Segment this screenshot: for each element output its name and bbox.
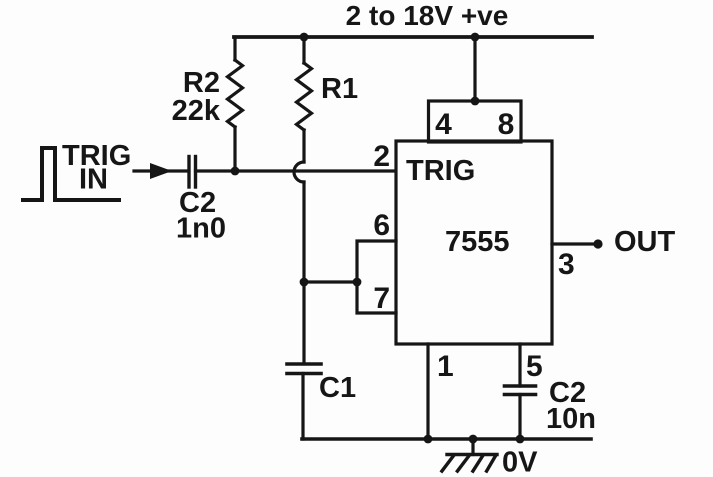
input pulse waveform symbol xyxy=(23,148,119,200)
svg-text:1n0: 1n0 xyxy=(176,213,226,245)
wire: trigger line from C2 to pin 2 of IC xyxy=(196,169,397,172)
svg-text:0V: 0V xyxy=(502,447,538,477)
resistor R1 (zigzag) xyxy=(297,63,312,130)
wire: vertical from branch down to C1 top plate xyxy=(302,282,305,363)
wire: vertical from +V rail down to 4/8 box xyxy=(473,37,476,101)
svg-text:TRIG: TRIG xyxy=(406,155,475,187)
wire: 0V bottom rail xyxy=(302,437,591,441)
wire: vertical from hop down to pins 6/7 branch xyxy=(302,182,305,282)
ground: hatch stroke 1 xyxy=(442,456,454,472)
ground: hatch stroke 4 xyxy=(487,456,496,472)
wire: stub from 0V rail to ground symbol xyxy=(471,439,474,455)
svg-text:7555: 7555 xyxy=(445,226,510,258)
svg-text:7: 7 xyxy=(373,282,390,315)
capacitor C2 10n, top plate xyxy=(505,384,536,388)
svg-text:OUT: OUT xyxy=(614,226,676,258)
svg-text:8: 8 xyxy=(498,108,515,141)
wire: R2 bottom lead down to trigger line xyxy=(233,127,236,171)
node: junction dot on bracket left side xyxy=(353,278,362,287)
op-amp U1: 7555 timer IC body xyxy=(396,141,552,344)
wire: bracket joining pins 6 and 7 xyxy=(357,241,396,313)
svg-text:5: 5 xyxy=(526,350,543,383)
svg-text:C1: C1 xyxy=(319,372,356,404)
node: output terminal dot xyxy=(593,239,602,248)
resistor R2 (zigzag) xyxy=(228,60,243,127)
svg-text:1: 1 xyxy=(437,350,454,383)
node: junction dot ground stub on 0V rail xyxy=(469,435,478,444)
capacitor C2 input coupling, right plate xyxy=(194,157,197,188)
svg-text:3: 3 xyxy=(558,248,575,281)
svg-text:4: 4 xyxy=(435,108,452,141)
wire: pin 3 output lead xyxy=(552,242,598,245)
wire: R1 bottom lead down to hop xyxy=(302,130,305,162)
capacitor C2 input coupling, left plate xyxy=(187,157,190,188)
wire: C2 bottom lead to 0V rail xyxy=(518,395,521,440)
wire: +V top supply rail xyxy=(234,35,592,39)
ground: hatch stroke 3 xyxy=(473,456,483,472)
arrow: signal flow arrowhead xyxy=(150,163,172,179)
capacitor C1 timing, bottom plate xyxy=(287,372,321,376)
svg-text:2 to 18V +ve: 2 to 18V +ve xyxy=(346,0,509,31)
ground: chassis ground symbol bar xyxy=(447,453,497,456)
wire: pin 1 lead from IC bottom to 0V rail xyxy=(426,344,429,439)
svg-text:10n: 10n xyxy=(546,403,596,435)
box: pins 4 and 8 supply box xyxy=(429,101,522,142)
wire: R1 top lead from +V rail xyxy=(302,37,305,63)
svg-text:R1: R1 xyxy=(321,73,358,105)
node: junction dot pin4/8 feed on +V rail xyxy=(471,33,480,42)
wire: pin 5 lead from IC bottom into C2 top plate xyxy=(518,344,521,386)
node: junction dot at C1 / pins6-7 branch xyxy=(300,278,309,287)
wire: branch from C1 line to pins 6/7 bracket xyxy=(304,280,357,283)
node: junction dot on top of 4/8 box xyxy=(471,97,480,106)
node: junction dot pin1 at 0V rail xyxy=(424,435,433,444)
capacitor C2 10n, bottom plate xyxy=(505,393,536,397)
node: junction dot R1 top on +V rail xyxy=(300,33,309,42)
wire: C1 bottom lead to 0V rail xyxy=(301,374,304,440)
node: junction dot C2 at 0V rail xyxy=(516,435,525,444)
svg-text:IN: IN xyxy=(79,164,108,196)
svg-text:2: 2 xyxy=(373,140,390,173)
wire: input lead into arrow xyxy=(134,169,188,172)
capacitor C1 timing, top plate xyxy=(287,362,321,366)
wire: hop (no-connect jump) over trigger line xyxy=(294,162,304,182)
svg-text:22k: 22k xyxy=(172,95,221,127)
svg-text:6: 6 xyxy=(373,209,390,242)
wire: R2 top lead from +V rail xyxy=(233,37,236,60)
ground: hatch stroke 2 xyxy=(457,456,469,472)
node: junction dot R2 bottom on trigger line xyxy=(231,167,240,176)
